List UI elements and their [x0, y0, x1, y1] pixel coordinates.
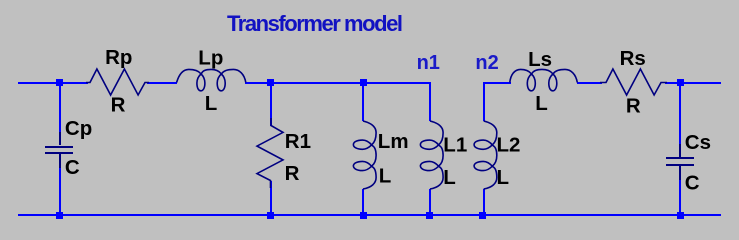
wire Cp branch vertical	[59, 83, 61, 214]
inductor L1	[420, 121, 443, 189]
junction bottom R1	[267, 212, 274, 219]
junction bottom Cp	[56, 212, 63, 219]
svg-text:n2: n2	[475, 52, 498, 74]
svg-text:Ls: Ls	[528, 48, 552, 71]
svg-text:C: C	[685, 172, 700, 195]
wire L1 branch vertical (n1)	[429, 82, 431, 214]
svg-text:Cs: Cs	[685, 131, 711, 154]
resistor Rs	[600, 69, 667, 95]
svg-text:Cp: Cp	[65, 117, 92, 140]
wire top segment Rp to Lp	[147, 82, 177, 84]
svg-text:L1: L1	[443, 134, 467, 157]
wire top segment Ls to Rs	[577, 82, 602, 84]
junction top Cp	[56, 79, 63, 86]
capacitor Cs plates	[666, 158, 694, 165]
svg-text:L: L	[379, 165, 392, 188]
svg-text:L: L	[497, 166, 510, 189]
svg-text:Transformer model: Transformer model	[227, 11, 403, 36]
wire bottom rail	[18, 214, 721, 216]
wire Cs branch vertical	[679, 83, 681, 214]
junction bottom L2	[479, 212, 486, 219]
junction bottom Cs	[677, 212, 684, 219]
inductor Lp	[177, 69, 246, 90]
inductor L2	[474, 121, 497, 189]
svg-text:Rs: Rs	[620, 47, 646, 70]
svg-text:R: R	[285, 162, 300, 185]
wire top segment Lp to n1 corner	[245, 82, 430, 84]
svg-text:Lm: Lm	[378, 130, 409, 153]
wire top main segment left rail to Rp	[18, 82, 88, 84]
svg-text:C: C	[65, 156, 80, 179]
svg-text:Rp: Rp	[105, 46, 132, 69]
wire top right segment n2 corner to Ls	[484, 82, 511, 84]
junction top R1	[267, 79, 274, 86]
svg-text:L2: L2	[497, 134, 521, 157]
capacitor Cp leads	[59, 132, 61, 168]
wire top segment Rs to right end	[665, 82, 721, 84]
capacitor Cs leads	[679, 144, 681, 180]
svg-text:R: R	[626, 95, 641, 118]
svg-text:R: R	[111, 94, 126, 117]
svg-text:L: L	[205, 92, 218, 115]
inductor Lm	[353, 121, 376, 189]
wire Lm branch vertical	[362, 83, 364, 214]
junction bottom L1	[426, 212, 433, 219]
svg-text:R1: R1	[285, 130, 311, 153]
svg-text:Lp: Lp	[198, 47, 223, 70]
wire L2 branch vertical (n2)	[483, 82, 485, 214]
capacitor Cp plates	[45, 147, 73, 153]
svg-text:n1: n1	[417, 52, 440, 74]
inductor Ls	[510, 69, 578, 90]
junction bottom Lm	[360, 212, 367, 219]
svg-text:L: L	[443, 166, 456, 189]
junction top Cs	[677, 79, 684, 86]
junction top Lm	[360, 79, 367, 86]
resistor Rp	[86, 69, 149, 95]
wire R1 branch vertical	[270, 83, 272, 214]
svg-text:L: L	[535, 92, 548, 115]
resistor R1	[257, 118, 283, 188]
